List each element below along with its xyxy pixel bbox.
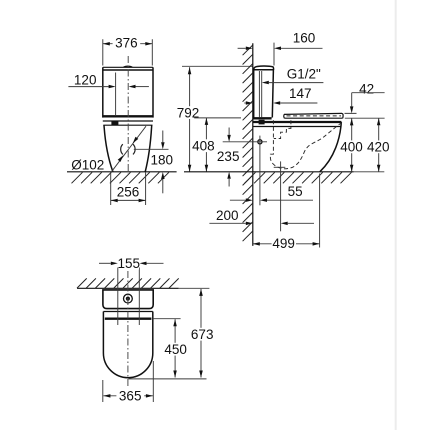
side cistern bottom band (253, 117, 272, 119)
svg-text:499: 499 (272, 236, 295, 251)
dimension 673 (189, 289, 214, 378)
dimension 400 (339, 118, 363, 171)
outlet reference line (134, 148, 169, 150)
front ground hatch (72, 172, 169, 183)
svg-text:400: 400 (340, 140, 363, 155)
dimension 792 (176, 67, 201, 172)
dimension 147 (244, 86, 317, 105)
front centerline (127, 56, 129, 174)
svg-text:256: 256 (117, 185, 140, 200)
svg-text:155: 155 (118, 256, 141, 271)
side bowl front profile (320, 122, 342, 172)
svg-text:365: 365 (119, 389, 142, 404)
front view cistern (103, 66, 154, 125)
side flush pipe (259, 71, 261, 118)
dimension 420 (366, 118, 390, 172)
dimension 235 (216, 128, 240, 187)
svg-text:450: 450 (164, 342, 187, 357)
dimension 450 (162, 319, 189, 377)
reference line top (792) (182, 65, 253, 67)
svg-text:180: 180 (151, 152, 174, 167)
dimension 376 (103, 35, 153, 65)
svg-text:408: 408 (192, 139, 215, 154)
seat reference lines (345, 113, 385, 118)
front tick line for 120 (115, 73, 117, 116)
reference line seat top (408) (194, 117, 241, 119)
plan 155 extension lines (118, 268, 140, 326)
svg-text:200: 200 (216, 208, 239, 223)
plan bowl outline (103, 312, 152, 378)
svg-text:120: 120 (74, 72, 97, 87)
plan flush button (124, 294, 133, 303)
side wall hatch (243, 45, 253, 241)
svg-text:Ø102: Ø102 (71, 158, 104, 173)
dimension 160 (238, 31, 323, 66)
side cistern (254, 66, 274, 117)
outlet dashed circle (121, 144, 135, 154)
dimension 408 (192, 118, 216, 172)
plan wall line (77, 287, 179, 289)
label G1/2" (262, 67, 324, 85)
svg-text:G1/2": G1/2" (287, 67, 321, 82)
dimension 200 (209, 208, 314, 225)
dimension 120 (68, 72, 148, 88)
side bowl rim line (253, 121, 341, 123)
plan seat hinge line (105, 318, 181, 320)
dimension 256 (111, 172, 146, 205)
front ground line (67, 171, 177, 173)
side ground line (184, 171, 354, 173)
side drain cross (274, 161, 286, 231)
svg-text:376: 376 (115, 35, 138, 50)
dimension 155 (99, 256, 164, 271)
page edge line (395, 0, 397, 430)
svg-text:55: 55 (288, 184, 303, 199)
plan wall hatch (77, 278, 179, 288)
svg-text:160: 160 (293, 31, 316, 46)
dimension 55 (230, 184, 313, 202)
svg-text:235: 235 (217, 149, 240, 164)
front flush valve square (111, 121, 118, 126)
dimension 365 (103, 361, 154, 404)
side ground hatch (245, 172, 352, 183)
plan cistern (103, 290, 153, 309)
dimension 499 (253, 174, 320, 252)
side ground extension line (354, 171, 385, 173)
dimension 42 (350, 82, 385, 114)
plan centerline (127, 271, 129, 388)
plan bottom reference line (129, 378, 207, 380)
side bowl rim lower line (253, 126, 341, 128)
side seat lid (284, 113, 343, 118)
svg-text:147: 147 (289, 86, 312, 101)
front pedestal (104, 125, 152, 172)
dimension 180 (151, 131, 174, 194)
outlet leader diagonal (110, 126, 146, 173)
side flush valve square (259, 120, 265, 125)
side water inlet circle (258, 136, 262, 206)
svg-text:673: 673 (191, 327, 214, 342)
plan wall extension (179, 287, 210, 289)
svg-text:420: 420 (367, 140, 390, 155)
side wall line (252, 43, 254, 246)
svg-text:42: 42 (359, 82, 374, 97)
side bowl interior dashed (270, 120, 342, 169)
reference line inlet (235) (223, 141, 267, 143)
